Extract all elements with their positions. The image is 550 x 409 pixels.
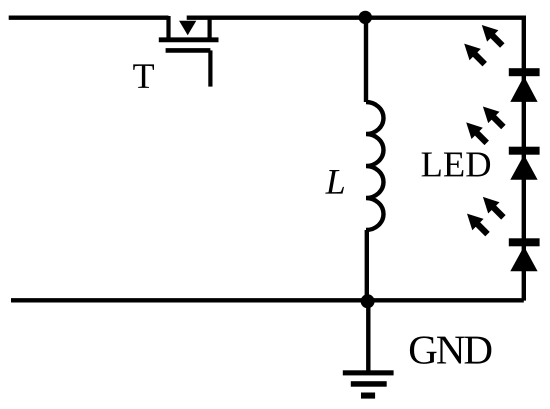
wire right vertical — [522, 16, 526, 301]
wire inductor branch top — [364, 17, 368, 102]
light arrows LED D3 — [467, 197, 503, 234]
LED D3 — [509, 238, 540, 271]
wire inductor branch bottom — [365, 230, 369, 301]
light arrows LED D2 — [466, 107, 503, 143]
wire top-left segment — [9, 16, 169, 20]
LED D1 — [509, 68, 540, 102]
node junction top — [359, 11, 372, 24]
light arrows LED D1 — [464, 25, 502, 64]
inductor L — [366, 102, 384, 230]
label L — [325, 170, 344, 194]
label T — [133, 64, 154, 88]
label GND — [410, 336, 492, 364]
transistor T — [159, 16, 219, 87]
node junction bottom — [361, 294, 375, 308]
wire bottom — [11, 298, 524, 302]
ground — [343, 370, 394, 398]
label LED — [422, 153, 490, 177]
wire top-right segment — [187, 16, 524, 20]
wire ground stem — [366, 301, 370, 371]
LED D2 — [509, 147, 540, 180]
